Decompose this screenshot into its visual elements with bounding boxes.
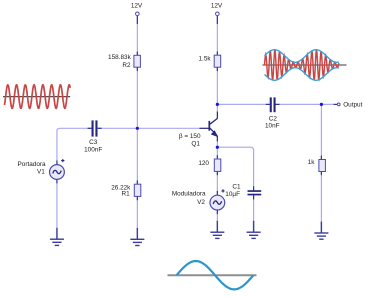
pin stubs R2 xyxy=(136,52,138,56)
resistor R5 1k xyxy=(319,160,326,172)
node output junction xyxy=(320,103,323,106)
svg-text:Moduladora: Moduladora xyxy=(172,191,206,198)
node collector junction xyxy=(216,103,219,106)
svg-text:β = 150: β = 150 xyxy=(179,133,201,140)
wire C3 to base node xyxy=(98,127,200,129)
modulating waveform sine xyxy=(177,261,254,289)
wire C2 to output node xyxy=(276,103,334,105)
svg-text:1k: 1k xyxy=(308,159,316,166)
wire emitter node to C1 xyxy=(217,147,253,190)
AM waveform envelope top xyxy=(265,50,339,63)
svg-text:1.5k: 1.5k xyxy=(199,55,212,62)
node emitter junction xyxy=(216,146,219,149)
resistor R4 120 xyxy=(214,159,221,171)
wire R5 to ground xyxy=(320,172,322,233)
svg-text:Q1: Q1 xyxy=(191,141,200,148)
capacitor C3 xyxy=(92,120,94,136)
resistor R3 1.5k xyxy=(214,55,221,67)
transistor Q1 xyxy=(200,112,218,142)
wire collector node to C2 xyxy=(217,103,269,105)
resistor R1 xyxy=(134,184,141,196)
ground under C1 xyxy=(253,221,255,232)
wire V1 to ground xyxy=(56,179,58,238)
carrier waveform sine xyxy=(5,85,71,109)
wire V1 to base net xyxy=(57,128,91,164)
svg-text:Portadora: Portadora xyxy=(18,161,47,168)
pin stubs V2 xyxy=(216,191,218,195)
pin stub left 12V terminal xyxy=(136,15,138,24)
wire V2 to ground xyxy=(216,210,218,231)
source V2 Moduladora xyxy=(210,195,225,210)
AM waveform envelope bottom xyxy=(265,68,339,81)
power terminal 12V left xyxy=(136,12,140,16)
pin stubs R1 xyxy=(136,180,138,184)
svg-text:158.83k: 158.83k xyxy=(108,54,132,61)
pin stub output terminal xyxy=(334,103,338,105)
pin stubs C2 xyxy=(266,103,270,105)
svg-text:C1: C1 xyxy=(232,184,241,191)
source V1 Portadora xyxy=(50,165,65,180)
ground under R1 xyxy=(136,228,138,239)
pin stubs C1 xyxy=(253,186,255,190)
svg-text:C3: C3 xyxy=(89,139,98,146)
svg-text:12V: 12V xyxy=(211,3,223,10)
node base junction xyxy=(136,127,139,130)
wire R4 to V2 xyxy=(216,172,218,196)
capacitor C2 xyxy=(270,97,272,112)
ground under V1 xyxy=(56,228,58,239)
modulating waveform axis xyxy=(168,274,257,276)
ground under V2 xyxy=(216,221,218,232)
wire emitter node to R4 xyxy=(216,141,218,159)
carrier waveform axis xyxy=(3,96,70,98)
pin stub right 12V terminal xyxy=(216,15,218,24)
pin stubs R3 1.5k xyxy=(216,52,218,56)
wire R2 to base node xyxy=(136,67,138,128)
capacitor C1 xyxy=(248,190,262,192)
AM waveform axis xyxy=(263,64,347,66)
svg-text:R1: R1 xyxy=(122,191,131,198)
svg-text:100nF: 100nF xyxy=(84,146,102,153)
svg-text:V2: V2 xyxy=(197,199,205,206)
wire left 12V rail to R2 xyxy=(136,16,138,55)
wire R1 to ground xyxy=(136,197,138,240)
wire R3 to collector node xyxy=(216,67,218,112)
svg-text:R2: R2 xyxy=(122,62,131,69)
pin stubs R5 1k xyxy=(320,156,322,160)
pin stubs C3 xyxy=(88,127,92,129)
wire output node to R5 xyxy=(320,104,322,159)
svg-text:10nF: 10nF xyxy=(265,122,280,129)
AM waveform carrier xyxy=(265,50,339,80)
svg-text:12V: 12V xyxy=(131,3,143,10)
wire C1 to ground xyxy=(253,195,255,231)
svg-text:Output: Output xyxy=(343,102,362,109)
ground under R5 xyxy=(320,222,322,233)
output terminal xyxy=(337,103,340,106)
resistor R2 xyxy=(134,55,141,67)
svg-text:V1: V1 xyxy=(37,168,45,175)
pin stubs R4 120 xyxy=(216,155,218,159)
pin stubs V1 xyxy=(56,161,58,165)
svg-text:120: 120 xyxy=(198,160,209,167)
power terminal 12V right xyxy=(216,12,220,16)
wire base node to R1 xyxy=(136,128,138,184)
wire right 12V rail to R3 xyxy=(216,16,218,55)
svg-text:10µF: 10µF xyxy=(225,191,240,198)
